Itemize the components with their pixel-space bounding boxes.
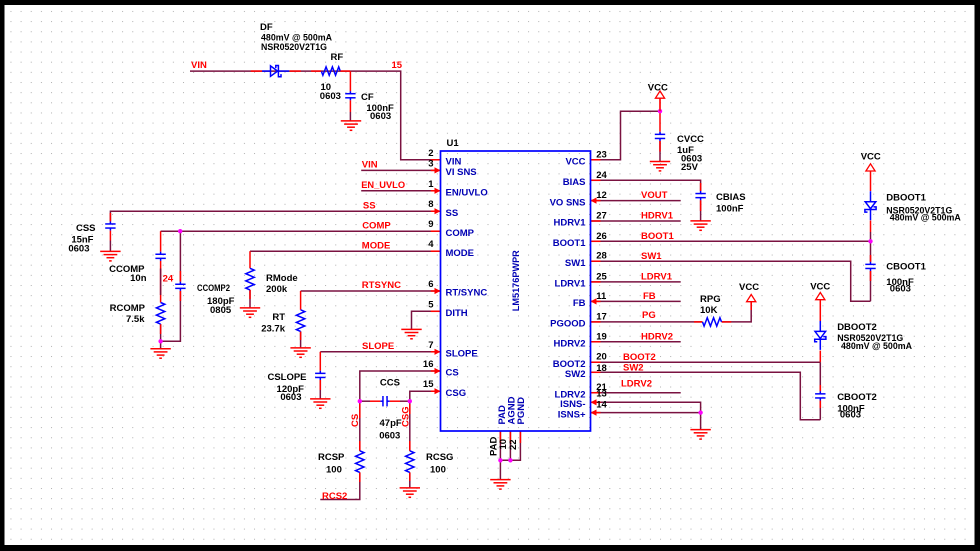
- svg-text:SLOPE: SLOPE: [446, 349, 478, 360]
- svg-text:FB: FB: [573, 298, 586, 309]
- svg-text:24: 24: [163, 274, 174, 285]
- wire VCC symbol stem to junction: [659, 99, 661, 112]
- svg-text:CSG: CSG: [446, 388, 467, 399]
- svg-text:6: 6: [428, 279, 433, 290]
- svg-text:18: 18: [596, 363, 607, 374]
- svg-text:BOOT2: BOOT2: [623, 352, 656, 363]
- junction VCC/CVCC: [658, 109, 662, 113]
- wire DITH pin 5 to ground: [412, 311, 441, 329]
- ground RMode: [240, 308, 260, 317]
- wire COMP net to pin 9: [161, 230, 441, 232]
- wire FB net pin 11: [591, 300, 681, 302]
- svg-text:SW1: SW1: [565, 258, 586, 269]
- ground PAD: [490, 480, 510, 490]
- svg-text:14: 14: [596, 400, 607, 411]
- svg-text:24: 24: [596, 170, 607, 181]
- capacitor CSS: [105, 221, 115, 230]
- power VCC DBOOT1: [866, 164, 875, 171]
- resistor RCOMP: [156, 303, 164, 325]
- svg-text:BIAS: BIAS: [563, 177, 586, 188]
- svg-text:47pF: 47pF: [380, 418, 402, 429]
- diode DF: [262, 66, 289, 77]
- resistor RPG: [703, 318, 722, 326]
- svg-text:SW2: SW2: [565, 369, 586, 380]
- resistor RF: [321, 67, 340, 75]
- wire CCOMP to RCOMP segment: [160, 261, 162, 303]
- svg-text:MODE: MODE: [446, 248, 475, 259]
- resistor RCSG: [406, 451, 414, 473]
- capacitor CCS: [380, 396, 389, 406]
- svg-text:RF: RF: [331, 52, 344, 63]
- IC pin stubs right: [591, 160, 601, 413]
- svg-text:U1: U1: [447, 138, 460, 149]
- power VCC DBOOT2: [816, 293, 825, 300]
- svg-text:CS: CS: [446, 368, 459, 379]
- svg-text:CCOMP2: CCOMP2: [197, 283, 230, 294]
- wire CBOOT2 bottom pin: [819, 401, 821, 420]
- ground CVCC: [650, 162, 670, 171]
- svg-text:16: 16: [423, 359, 434, 370]
- svg-text:ISNS+: ISNS+: [558, 409, 586, 420]
- svg-text:COMP: COMP: [362, 221, 391, 232]
- svg-text:CSLOPE: CSLOPE: [268, 372, 307, 383]
- svg-text:VO SNS: VO SNS: [550, 197, 586, 208]
- svg-text:LM5176PWPR: LM5176PWPR: [511, 250, 522, 311]
- svg-text:VI SNS: VI SNS: [446, 167, 477, 178]
- svg-text:0603: 0603: [890, 284, 911, 295]
- resistor RT: [296, 310, 304, 332]
- svg-text:RT/SYNC: RT/SYNC: [446, 288, 488, 299]
- wire PGND pin 22: [500, 431, 520, 460]
- wire DBOOT1 cathode to BOOT1 junction: [870, 221, 872, 233]
- svg-text:MODE: MODE: [362, 240, 391, 251]
- svg-text:HDRV1: HDRV1: [641, 211, 674, 222]
- wire CBIAS bottom to ground: [700, 200, 702, 221]
- svg-text:27: 27: [596, 211, 607, 222]
- wire DBOOT1 stem VCC: [870, 171, 872, 191]
- svg-text:20: 20: [596, 352, 607, 363]
- wire CS down to RCSP: [359, 401, 361, 451]
- wire CSG down to RCSG: [409, 401, 411, 451]
- capacitor CCOMP: [155, 252, 165, 261]
- svg-text:CBIAS: CBIAS: [716, 192, 746, 203]
- wire VIN to pin 3: [361, 169, 440, 171]
- svg-text:19: 19: [596, 331, 607, 342]
- svg-text:LDRV1: LDRV1: [641, 272, 673, 283]
- diode DBOOT1: [865, 191, 876, 220]
- svg-text:RCOMP: RCOMP: [110, 303, 146, 314]
- svg-text:DBOOT1: DBOOT1: [886, 192, 926, 203]
- svg-text:0603: 0603: [370, 111, 391, 122]
- svg-text:1: 1: [428, 179, 434, 190]
- svg-text:PGOOD: PGOOD: [550, 319, 586, 330]
- svg-text:RCSP: RCSP: [318, 452, 345, 463]
- ground DITH: [401, 329, 421, 338]
- svg-text:EN_UVLO: EN_UVLO: [361, 180, 405, 191]
- wire CCOMP2 top pin to COMP junction: [179, 231, 181, 282]
- ground ISNS: [690, 430, 710, 440]
- capacitor CF: [345, 91, 355, 100]
- wire SW2 net pin 18 to CBOOT2 bottom: [591, 372, 821, 420]
- svg-text:VCC: VCC: [648, 83, 668, 94]
- capacitor CBOOT2: [815, 391, 825, 400]
- svg-text:22: 22: [508, 439, 519, 450]
- svg-text:25: 25: [596, 271, 607, 282]
- ground RCSG: [400, 488, 420, 497]
- wire SLOPE to CSLOPE: [319, 352, 321, 371]
- svg-text:RT: RT: [272, 312, 285, 323]
- ground CSS: [100, 251, 120, 261]
- svg-text:RPG: RPG: [700, 294, 721, 305]
- wire RTSYNC net to pin 6: [301, 290, 441, 292]
- IC pin stubs left: [431, 160, 441, 391]
- capacitor CBIAS: [695, 191, 705, 200]
- input pin arrows left side: [435, 167, 441, 173]
- svg-text:11: 11: [596, 291, 607, 302]
- svg-text:5: 5: [428, 299, 434, 310]
- svg-text:0603: 0603: [280, 392, 301, 403]
- svg-text:0805: 0805: [210, 305, 232, 316]
- junction ISNS ground: [698, 410, 702, 414]
- junction CSG/CCS: [408, 399, 412, 403]
- wire HDRV1 net pin 27: [591, 220, 681, 222]
- svg-text:15: 15: [423, 379, 434, 390]
- wire BIAS pin 24 to CBIAS: [591, 180, 701, 191]
- ground CF: [341, 121, 361, 130]
- svg-text:HDRV2: HDRV2: [553, 339, 585, 350]
- ground CBIAS: [690, 221, 710, 230]
- svg-text:VCC: VCC: [565, 157, 585, 168]
- capacitor CBOOT1: [865, 262, 875, 271]
- svg-text:LDRV2: LDRV2: [621, 379, 652, 390]
- svg-text:RCSG: RCSG: [426, 452, 453, 463]
- svg-text:7.5k: 7.5k: [126, 314, 145, 325]
- wire junction to CCOMP2 bottom: [161, 291, 181, 341]
- svg-text:100: 100: [430, 465, 446, 476]
- svg-text:CBOOT2: CBOOT2: [837, 392, 877, 403]
- ground CSLOPE: [310, 399, 330, 408]
- svg-text:CS: CS: [350, 414, 361, 427]
- capacitor CSLOPE: [315, 371, 325, 380]
- power VCC main: [655, 91, 664, 111]
- svg-text:SS: SS: [446, 208, 459, 219]
- op-amp U1 LM5176PWPR body: [441, 151, 591, 431]
- svg-text:10K: 10K: [700, 305, 718, 316]
- wire EN_UVLO to pin 1: [361, 190, 440, 192]
- svg-text:0603: 0603: [379, 431, 400, 442]
- wire ISNS- pin 13 to ground: [591, 402, 701, 429]
- wire VOUT net pin 12: [591, 200, 681, 202]
- wire MODE net to pin 4: [250, 250, 441, 252]
- svg-text:HDRV2: HDRV2: [641, 331, 673, 342]
- wire LDRV2 net pin 21: [591, 392, 681, 394]
- svg-text:3: 3: [428, 158, 433, 169]
- wire ISNS+ pin 14: [591, 412, 701, 414]
- svg-text:VCC: VCC: [810, 282, 830, 293]
- svg-text:DBOOT2: DBOOT2: [837, 322, 877, 333]
- wire SW1 net pin 28 to CBOOT1 bottom: [591, 261, 871, 301]
- svg-text:SLOPE: SLOPE: [362, 341, 394, 352]
- svg-text:COMP: COMP: [446, 228, 475, 239]
- svg-text:0603: 0603: [840, 410, 861, 421]
- wire SLOPE net to pin 7: [320, 351, 440, 353]
- wire RPG right pin to VCC: [722, 302, 752, 322]
- capacitor CCOMP2: [175, 282, 185, 291]
- svg-text:SW2: SW2: [623, 362, 644, 373]
- svg-text:100: 100: [326, 465, 342, 476]
- svg-text:CCS: CCS: [380, 377, 400, 388]
- svg-text:15: 15: [392, 60, 403, 71]
- junction BOOT1/DBOOT1/CBOOT1: [868, 239, 872, 243]
- power VCC RPG: [747, 295, 756, 303]
- svg-text:RCS2: RCS2: [322, 491, 347, 502]
- svg-text:VIN: VIN: [446, 157, 462, 168]
- wire VIN input net: [190, 71, 441, 160]
- svg-text:VCC: VCC: [739, 282, 759, 293]
- svg-text:28: 28: [596, 251, 607, 262]
- wire PAD pin to ground: [499, 431, 501, 480]
- svg-text:FB: FB: [643, 291, 656, 302]
- svg-text:0603: 0603: [68, 244, 89, 255]
- svg-text:SW1: SW1: [641, 251, 662, 262]
- wire RCSP bottom to RCS2: [320, 472, 360, 499]
- svg-text:26: 26: [596, 231, 607, 242]
- wire CBOOT1 bottom pin: [870, 271, 872, 301]
- svg-text:VOUT: VOUT: [641, 190, 668, 201]
- wire CCOMP top pin: [160, 231, 162, 252]
- junction CS/CCS: [358, 399, 362, 403]
- wire RCOMP bottom to ground junction: [160, 324, 162, 349]
- resistor RMode: [246, 268, 254, 290]
- ground RT: [290, 348, 310, 357]
- svg-text:EN/UVLO: EN/UVLO: [446, 188, 488, 199]
- wire BOOT1 net pin 26: [591, 240, 871, 242]
- svg-text:BOOT1: BOOT1: [553, 238, 586, 249]
- resistor RCSP: [356, 451, 364, 473]
- svg-text:100nF: 100nF: [716, 204, 744, 215]
- svg-text:2: 2: [428, 148, 433, 159]
- svg-text:VIN: VIN: [191, 60, 207, 71]
- wire CVCC bottom to ground: [659, 141, 661, 162]
- wire RCSG bottom to ground: [409, 472, 411, 488]
- svg-text:17: 17: [596, 311, 607, 322]
- junction PAD/AGND: [498, 458, 502, 462]
- input pin arrows right side: [591, 198, 597, 204]
- svg-text:BOOT1: BOOT1: [641, 231, 674, 242]
- wire CSLOPE bottom to ground: [319, 380, 321, 399]
- svg-text:PG: PG: [642, 310, 656, 321]
- svg-text:CBOOT1: CBOOT1: [886, 261, 926, 272]
- capacitor CVCC: [655, 132, 665, 141]
- wire HDRV2 net pin 19: [591, 341, 681, 343]
- junction COMP/CCOMP2: [178, 229, 182, 233]
- svg-text:7: 7: [428, 340, 433, 351]
- junction RCOMP ground node: [158, 339, 162, 343]
- svg-text:RMode: RMode: [266, 273, 298, 284]
- wire RMode bottom to ground: [249, 290, 251, 308]
- svg-text:13: 13: [596, 389, 607, 400]
- svg-text:SS: SS: [363, 201, 376, 212]
- wire LDRV1 net pin 25: [591, 281, 681, 283]
- svg-text:VCC: VCC: [861, 151, 881, 162]
- wire CCS right pin to CSG junction: [390, 400, 400, 402]
- svg-text:DITH: DITH: [446, 308, 468, 319]
- wire RT bottom to ground: [300, 331, 302, 348]
- wire PG net pin 17 to RPG: [591, 321, 703, 323]
- wire CCS left pin: [360, 400, 370, 402]
- svg-text:PGND: PGND: [516, 397, 527, 425]
- svg-text:CF: CF: [361, 92, 374, 103]
- wire DBOOT2 cathode to BOOT2 junction and CBOOT2: [819, 351, 821, 363]
- svg-text:4: 4: [428, 239, 434, 250]
- svg-text:DF: DF: [260, 22, 273, 33]
- wire RT top pin: [300, 291, 302, 310]
- svg-text:480mV @ 500mA: 480mV @ 500mA: [890, 213, 961, 224]
- wire CS net pin 16: [360, 371, 441, 401]
- diode DBOOT2: [815, 321, 826, 350]
- wire SS net from CSS to pin 8: [110, 211, 440, 221]
- svg-text:VIN: VIN: [362, 160, 378, 171]
- ground RCOMP node: [150, 349, 170, 358]
- svg-text:RTSYNC: RTSYNC: [362, 280, 401, 291]
- wire AGND pin 10: [509, 431, 511, 460]
- wire BOOT2 net pin 20 to DBOOT2: [591, 361, 821, 363]
- svg-text:CSS: CSS: [76, 223, 96, 234]
- svg-text:10n: 10n: [130, 273, 147, 284]
- svg-text:HDRV1: HDRV1: [553, 218, 586, 229]
- svg-text:0603: 0603: [320, 91, 341, 102]
- svg-text:480mV @ 500mA: 480mV @ 500mA: [841, 341, 912, 352]
- svg-text:LDRV1: LDRV1: [555, 279, 587, 290]
- svg-text:9: 9: [428, 219, 433, 230]
- wire CSG net pin 15: [410, 391, 441, 401]
- svg-text:25V: 25V: [681, 162, 699, 173]
- svg-text:CVCC: CVCC: [677, 134, 704, 145]
- wire RMode top pin: [249, 251, 251, 268]
- svg-text:8: 8: [428, 199, 433, 210]
- wire BOOT1 junction to CBOOT1: [870, 241, 872, 261]
- svg-text:CSG: CSG: [401, 406, 412, 427]
- svg-text:12: 12: [596, 190, 607, 201]
- svg-text:NSR0520V2T1G: NSR0520V2T1G: [261, 42, 327, 53]
- svg-text:23: 23: [596, 149, 607, 160]
- wire CVCC top pin: [659, 111, 661, 132]
- svg-text:200k: 200k: [266, 284, 288, 295]
- svg-text:23.7k: 23.7k: [261, 324, 285, 335]
- wire VCC net pin 23: [591, 111, 661, 160]
